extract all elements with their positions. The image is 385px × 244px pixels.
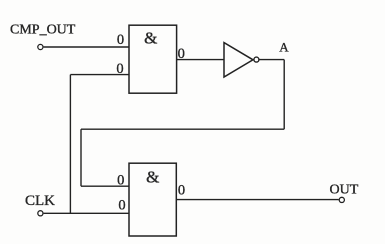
wire inverter output to node A [259,59,284,61]
svg-text:0: 0 [116,61,123,77]
svg-text:0: 0 [117,32,124,48]
svg-text:0: 0 [178,46,185,62]
svg-text:A: A [279,40,289,55]
and-gate U1 [129,25,177,93]
wire vertical CLK riser to U1 pin2 [69,75,71,214]
terminal OUT [339,197,344,202]
svg-text:0: 0 [178,183,185,199]
wire to U3 pin1 [81,185,129,187]
svg-text:0: 0 [117,172,124,188]
wire node A vertical drop [283,60,285,130]
svg-text:OUT: OUT [330,183,359,198]
svg-text:0: 0 [118,198,125,214]
wire feedback horizontal [81,128,284,130]
and-gate U3 [129,163,176,236]
wire CLK to U3 pin2 [44,212,129,214]
svg-text:&: & [144,29,157,48]
wire U1 output to inverter [177,59,224,61]
wire U1 pin2 horizontal [70,74,129,76]
terminal CMP_OUT [38,44,43,49]
svg-text:CLK: CLK [25,193,55,209]
svg-text:&: & [146,168,159,187]
wire U3 output to OUT [176,199,338,201]
inverter U2 bubble [254,57,259,62]
wire feedback vertical [80,129,82,186]
wire CMP_OUT to U1 pin1 [44,46,129,48]
svg-text:CMP_OUT: CMP_OUT [10,23,76,38]
terminal CLK [38,211,43,216]
inverter U2 [224,43,253,77]
